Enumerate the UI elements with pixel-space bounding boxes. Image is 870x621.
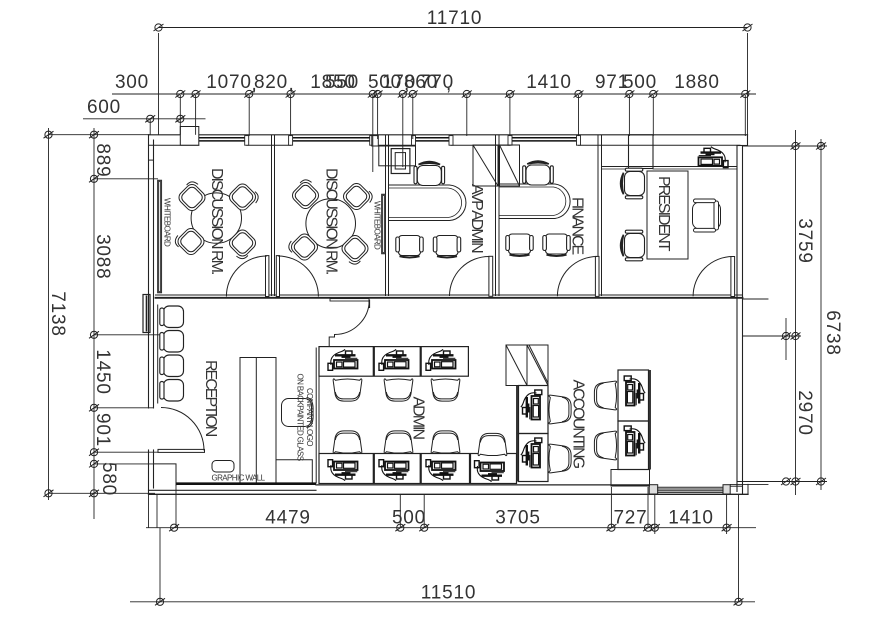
computers bottom row (rotated 180) [328, 460, 358, 481]
discussion room 1 chairs [175, 179, 209, 213]
wall: left exterior double line with entrance gap [148, 135, 150, 408]
waiting chairs x4 [160, 306, 184, 401]
reception counter [240, 358, 276, 484]
svg-text:DISCUSSION RM.: DISCUSSION RM. [208, 168, 225, 274]
pilaster left wall [143, 295, 150, 333]
AVP exec chair [414, 162, 445, 186]
computer on president credenza [699, 147, 729, 168]
svg-text:WHITEBOARD: WHITEBOARD [163, 198, 172, 247]
svg-text:1070: 1070 [206, 72, 251, 93]
joint line on left wall [149, 159, 154, 161]
window glazing bars on top wall [199, 138, 579, 141]
svg-text:WHITEBOARD: WHITEBOARD [373, 201, 382, 250]
accounting desk column A [519, 386, 549, 434]
President desk [647, 171, 688, 259]
discussion room 1 table [191, 193, 241, 243]
door AVP [489, 256, 493, 296]
stool near graphic wall [212, 461, 234, 473]
Finance wardrobe boxes [473, 145, 520, 186]
svg-text:COMPANY LOGO: COMPANY LOGO [305, 388, 314, 446]
svg-text:ACCOUNTING: ACCOUNTING [570, 380, 587, 469]
dimension line: 11510 [130, 601, 755, 603]
AVP desk [389, 185, 466, 221]
svg-text:600: 600 [87, 97, 121, 118]
admin chairs row2 (facing down) [333, 431, 362, 453]
admin top row band [319, 347, 468, 377]
wall: corridor wall (bottom of top rooms) [156, 295, 769, 301]
president top shelf line [602, 166, 738, 168]
window end posts [245, 136, 581, 146]
door discussion rm1 (leaf + arc) [266, 256, 269, 297]
partition discussion rm1 / rm2 [271, 136, 273, 296]
receptionist chair [282, 398, 314, 428]
dim 11710 line [159, 27, 748, 29]
svg-text:901: 901 [92, 413, 113, 447]
admin left border [315, 348, 317, 484]
accounting desk column B [618, 370, 649, 421]
svg-text:4479: 4479 [265, 508, 310, 529]
dimension lines: right chains 3759-2970 / 6738 [795, 130, 797, 495]
AVP guest chairs [396, 236, 423, 258]
svg-text:RECEPTION: RECEPTION [202, 360, 219, 437]
whiteboard rm1 [157, 180, 161, 293]
svg-text:GRAPHIC WALL: GRAPHIC WALL [212, 474, 266, 483]
svg-text:550: 550 [325, 72, 359, 93]
dimension lines: left chains 7138 / 889-3088-1450-901-580 [48, 128, 50, 500]
wall: bottom exterior line [149, 484, 749, 494]
Finance exec chair [523, 161, 554, 185]
svg-text:3705: 3705 [495, 508, 540, 529]
door President [731, 257, 735, 297]
svg-text:ADMIN: ADMIN [410, 397, 427, 440]
Finance desk [499, 184, 570, 219]
svg-text:PRESIDENT: PRESIDENT [655, 176, 672, 252]
computers top row [328, 349, 358, 370]
graphic wall thick line [176, 482, 316, 485]
dimension line: 600 [83, 118, 206, 120]
partition rm2 / AVP [385, 136, 387, 296]
dimension line: second row chain (300...1880) [112, 93, 756, 95]
svg-text:,: , [446, 74, 452, 95]
wall line behind waiting chairs [157, 305, 159, 404]
svg-text:1410: 1410 [526, 72, 571, 93]
alcove bottom-left [154, 464, 177, 486]
discussion room 2 table [306, 199, 356, 249]
svg-text:1880: 1880 [674, 72, 719, 93]
President exec chair [693, 199, 721, 232]
glazing frame box at AVP top-left [379, 146, 416, 166]
svg-text:1450: 1450 [92, 349, 113, 394]
Finance guest chairs [506, 234, 533, 256]
partition AVP / Finance [495, 136, 497, 296]
svg-text:3088: 3088 [92, 234, 113, 279]
svg-text:889: 889 [92, 143, 113, 177]
svg-text:11510: 11510 [421, 583, 476, 604]
pedestal below column B [611, 470, 650, 487]
wall: top interior face segments [149, 144, 741, 146]
President guest chairs [621, 168, 645, 199]
svg-text:820: 820 [254, 72, 288, 93]
window in bottom wall [649, 484, 768, 494]
door Finance [595, 256, 599, 296]
admin corridor door threshold [330, 299, 369, 301]
door corridor/admin [329, 300, 369, 347]
svg-text:3759: 3759 [794, 218, 815, 263]
mullion post pair at 372.8/377.6 [372, 136, 379, 146]
svg-text:DISCUSSION RM.: DISCUSSION RM. [323, 168, 340, 274]
admin chairs row1 (facing up to desks) [333, 379, 362, 401]
admin bottom row band [319, 454, 517, 484]
dimension tick marks (circle-slash) [154, 24, 164, 31]
wall: right exterior double line [736, 146, 738, 492]
chairs right of column A [549, 395, 571, 424]
svg-text:,: , [288, 74, 294, 95]
svg-text:500: 500 [392, 508, 426, 529]
door reception entrance [158, 449, 205, 452]
svg-text:6738: 6738 [822, 310, 843, 355]
partition Finance / President [597, 136, 599, 296]
extension lines for 11710 [158, 33, 160, 135]
svg-text:2970: 2970 [794, 390, 815, 435]
column block at president top [629, 135, 654, 169]
whiteboard rm2 [381, 194, 385, 254]
svg-text:500: 500 [623, 72, 657, 93]
svg-text:1410: 1410 [668, 508, 713, 529]
discussion room 2 chairs [289, 177, 323, 211]
svg-text:ON BACKPAINTED GLASS: ON BACKPAINTED GLASS [296, 374, 305, 461]
svg-text:7138: 7138 [47, 291, 68, 336]
mullion post top-left [180, 127, 199, 146]
svg-text:300: 300 [115, 72, 149, 93]
dimension line: bottom chain 4479-500-3705-727-1410 [146, 527, 756, 529]
door discussion rm2 [276, 256, 279, 297]
svg-text:AVP ADMIN: AVP ADMIN [468, 184, 485, 253]
extension lines: top chain verticals [179, 95, 181, 135]
svg-text:580: 580 [98, 462, 119, 496]
svg-text:727: 727 [613, 508, 647, 529]
X cabinet [506, 345, 548, 386]
svg-text:11710: 11710 [427, 8, 482, 29]
wall: top exterior line [149, 134, 748, 136]
chairs left of column B [594, 381, 616, 410]
svg-text:FINANCE: FINANCE [569, 197, 586, 255]
